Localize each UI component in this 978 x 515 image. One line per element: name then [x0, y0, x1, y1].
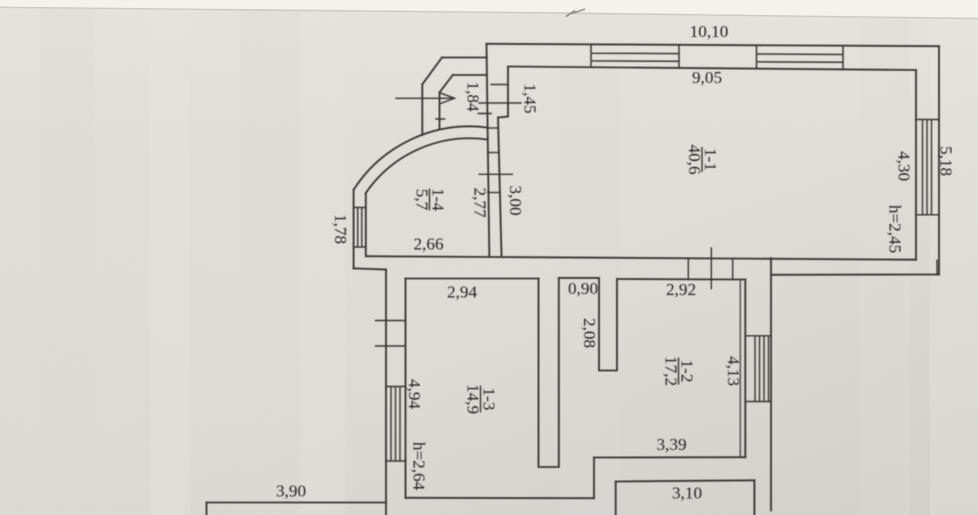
- wire room 1-2 top wall: [617, 278, 745, 281]
- wire 0,90 box top: [559, 277, 599, 279]
- svg-text:1,45: 1,45: [521, 83, 540, 113]
- wire stub wall 2: [599, 279, 617, 371]
- svg-text:h=2,64: h=2,64: [410, 442, 429, 491]
- window room 1-2 right wall: [746, 336, 771, 402]
- svg-text:0,90: 0,90: [568, 279, 598, 298]
- wire porch outer chamfer: [422, 58, 442, 85]
- dimension line 4,13: [739, 281, 741, 456]
- svg-text:1,84: 1,84: [464, 81, 483, 111]
- svg-text:40,6: 40,6: [685, 144, 704, 174]
- curved wall outer arc: [354, 126, 487, 189]
- svg-text:10,10: 10,10: [690, 22, 729, 41]
- wire room 1-3 bottom wall: [406, 497, 595, 499]
- wire room 1-2 bottom wall: [594, 456, 745, 458]
- tick A x688: [687, 259, 689, 279]
- white top strip: [0, 0, 978, 18]
- tick y113.5: [479, 113, 492, 115]
- svg-text:3,39: 3,39: [656, 435, 686, 454]
- wire 3,10 box right: [753, 480, 755, 515]
- wire 1-4 left inner wall: [365, 193, 367, 256]
- tick y192.5: [488, 192, 500, 194]
- entrance arrowhead: [441, 93, 455, 103]
- svg-text:4,30: 4,30: [895, 151, 914, 181]
- wire 1-4 left outer wall: [353, 190, 355, 269]
- wire room 1-2 right wall: [744, 280, 746, 458]
- wire bottom wall upper section: [366, 256, 916, 260]
- entrance arrow line: [396, 97, 455, 99]
- svg-text:2,77: 2,77: [471, 187, 490, 217]
- svg-text:4,13: 4,13: [724, 356, 743, 386]
- small mark artifact: [566, 9, 585, 17]
- wire wall 1-4/1-1 right line top: [498, 68, 508, 256]
- wire porch outer vertical: [421, 84, 423, 135]
- wire 3,10 box top: [616, 480, 755, 481]
- svg-text:3,10: 3,10: [672, 484, 702, 503]
- svg-text:2,66: 2,66: [413, 235, 443, 254]
- room label 1-4/5,7: [413, 188, 448, 211]
- tick y152.5: [487, 152, 499, 154]
- wire porch inner top: [453, 74, 487, 76]
- tick y174.3 long: [479, 173, 512, 175]
- tick C x732: [732, 259, 734, 280]
- wire porch inner vertical: [439, 92, 441, 129]
- svg-text:5,18: 5,18: [937, 146, 956, 176]
- curved wall inner arc: [366, 138, 487, 193]
- dimension line 1,84/1,45: [479, 102, 521, 104]
- wire inner top wall room 1-1: [508, 67, 916, 71]
- wire stub wall 1: [539, 278, 559, 467]
- wire top outer wall: [487, 44, 940, 46]
- room label 1-1/40,6: [685, 144, 720, 174]
- wire inner right wall room 1-1: [915, 70, 917, 260]
- svg-text:2,08: 2,08: [580, 318, 599, 348]
- wire porch inner cap: [436, 118, 445, 120]
- wire lower left outer wall: [385, 270, 387, 515]
- wire porch inner chamfer: [440, 75, 453, 92]
- wire bottom-left rect left: [206, 503, 208, 515]
- wire porch outer top: [442, 57, 487, 59]
- dimension ticks left wall: [376, 321, 406, 347]
- wire bottom outer wall right part: [771, 274, 939, 276]
- wire bottom-left rect top: [207, 502, 387, 504]
- svg-text:1,78: 1,78: [331, 214, 350, 244]
- svg-text:5,7: 5,7: [413, 189, 432, 211]
- wire room 1-3 top wall: [406, 278, 539, 280]
- wire step outer wall: [354, 268, 386, 269]
- wire right outer wall: [938, 46, 940, 274]
- svg-text:9,05: 9,05: [692, 68, 722, 87]
- svg-text:14,9: 14,9: [464, 384, 483, 414]
- wire 3,10 box left: [615, 482, 617, 515]
- room label 1-2/17,2: [662, 356, 697, 386]
- svg-text:4,94: 4,94: [405, 379, 424, 409]
- window W2 top wall: [757, 45, 844, 68]
- tick y128: [487, 127, 498, 129]
- wire end cap x937: [936, 260, 938, 274]
- wire porch left outer vertical: [487, 44, 490, 256]
- svg-text:2,94: 2,94: [447, 283, 477, 302]
- wire lower left inner wall: [405, 279, 407, 498]
- window lower-left wall: [386, 387, 406, 462]
- tick B x711 long: [710, 248, 712, 289]
- svg-text:17,2: 17,2: [662, 356, 681, 386]
- tick y84.5: [491, 84, 508, 86]
- window right wall room 1-1: [916, 120, 939, 215]
- svg-text:3,00: 3,00: [506, 185, 525, 215]
- svg-text:3,90: 3,90: [276, 482, 306, 501]
- svg-text:2,92: 2,92: [666, 280, 696, 299]
- wire hall vertical: [593, 458, 595, 499]
- wire long right wall lower section: [770, 258, 772, 510]
- svg-text:h=2,45: h=2,45: [886, 205, 905, 253]
- window 1-4 left wall: [354, 208, 366, 248]
- room label 1-3/14,9: [464, 384, 499, 414]
- window W1 top wall: [591, 44, 679, 67]
